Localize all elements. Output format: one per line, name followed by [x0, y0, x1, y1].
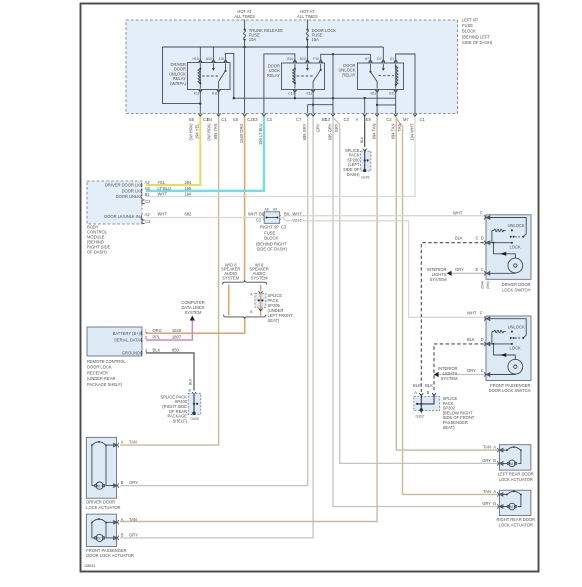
svg-text:FRONT PASSENGER: FRONT PASSENGER	[86, 548, 126, 553]
svg-text:PACKAGE SHELF): PACKAGE SHELF)	[87, 382, 123, 387]
receiver wire labels	[153, 328, 182, 353]
svg-text:TAN: TAN	[129, 440, 137, 445]
wire GRY driver switch to interior lights	[450, 272, 484, 274]
svg-text:SIDE OF DASH): SIDE OF DASH)	[257, 246, 288, 251]
brace bottom (alternates merge)	[224, 315, 266, 319]
left rear door lock actuator	[497, 445, 531, 470]
node: branch on ground rail	[332, 97, 334, 99]
body control module (dashed box)	[87, 181, 142, 224]
wire: left loop from rail to relay1 K11 node	[163, 47, 201, 104]
svg-text:GRY: GRY	[467, 368, 476, 373]
svg-text:294: 294	[185, 180, 193, 185]
driver door lock actuator label	[86, 500, 120, 510]
svg-text:682: 682	[185, 211, 193, 216]
svg-text:B: B	[493, 501, 496, 506]
svg-text:B: B	[121, 532, 124, 537]
fuse: door lock fuse 15A	[306, 28, 336, 42]
label interior lights system (passenger)	[438, 366, 458, 381]
svg-text:E8: E8	[322, 117, 328, 122]
svg-text:DOOR LK/UNLK IN: DOOR LK/UNLK IN	[104, 214, 140, 219]
node: B11 tee	[376, 104, 378, 106]
wire: relay1 J10 to ground rail	[226, 53, 234, 98]
right rear door lock actuator	[497, 490, 531, 515]
svg-text:DOOR LOCK SWITCH: DOOR LOCK SWITCH	[489, 388, 531, 393]
label W/ 8 speaker audio system	[249, 262, 268, 280]
arrow interior lights (passenger)	[434, 372, 439, 377]
svg-text:D: D	[481, 236, 484, 241]
wire: B11 tee to D11 drop	[377, 104, 396, 106]
wire: output tee horizontal to driver-B and rear-B drops	[308, 105, 333, 114]
wire GRY lock output to driver actuator B	[120, 117, 308, 486]
svg-text:A2: A2	[145, 212, 151, 217]
svg-text:B: B	[121, 480, 124, 485]
label BLK passenger switch	[467, 337, 475, 342]
relay U2 label	[267, 63, 280, 78]
wire: relay3 B11 drop to exit	[376, 91, 378, 113]
driver switch pin letters	[476, 236, 484, 272]
label GRY passenger switch	[467, 368, 476, 373]
svg-text:LEFT REAR DOOR: LEFT REAR DOOR	[498, 471, 534, 476]
svg-text:F10: F10	[313, 57, 319, 61]
svg-text:ORG: ORG	[153, 328, 162, 333]
svg-text:UNLOCK: UNLOCK	[508, 223, 525, 228]
splice pack SP400 label	[160, 394, 187, 423]
wire TAN to left rear actuator A	[396, 117, 498, 451]
connector exits at fuse block bottom edge	[199, 114, 417, 117]
svg-text:RELAY: RELAY	[267, 73, 280, 78]
splice pack SP205 (under left front seat)	[250, 291, 266, 316]
BCM label	[87, 225, 111, 255]
svg-text:BLK: BLK	[425, 383, 433, 388]
svg-text:C2: C2	[256, 218, 262, 223]
driver door lock switch label	[502, 282, 531, 292]
label WHT B8	[248, 211, 265, 222]
svg-text:B1: B1	[145, 192, 151, 197]
svg-text:194: 194	[185, 191, 193, 196]
svg-text:BLK: BLK	[360, 136, 364, 143]
labels BLK at SP302	[413, 383, 433, 395]
svg-text:BLK: BLK	[153, 348, 161, 353]
driver door lock switch	[484, 215, 531, 279]
svg-text:15A: 15A	[312, 37, 320, 42]
svg-text:C7: C7	[296, 117, 302, 122]
splice pack SP200 label	[343, 148, 360, 177]
svg-text:M7: M7	[403, 117, 409, 122]
front passenger door lock switch	[484, 316, 531, 381]
svg-text:C3: C3	[267, 117, 273, 122]
BCM pin brackets	[141, 183, 145, 223]
label GRY driver switch	[455, 267, 464, 272]
driver actuator pin labels	[121, 440, 138, 486]
svg-text:RIGHT REAR DOOR: RIGHT REAR DOOR	[497, 517, 536, 522]
label GRY wire 2	[315, 123, 320, 132]
svg-text:LOCK SWITCH: LOCK SWITCH	[502, 288, 530, 293]
svg-text:DOOR LOCK: DOOR LOCK	[87, 365, 112, 370]
svg-text:GRY: GRY	[482, 458, 491, 463]
label BLK driver switch	[455, 236, 463, 241]
svg-text:FRONT PASSENGER: FRONT PASSENGER	[490, 383, 530, 388]
svg-text:C: C	[481, 368, 484, 373]
svg-text:ALL TIMES: ALL TIMES	[297, 14, 318, 19]
svg-text:WHT: WHT	[467, 311, 477, 316]
svg-text:195 LT BLU: 195 LT BLU	[258, 123, 263, 145]
svg-text:BATTERY (B+): BATTERY (B+)	[113, 331, 141, 336]
svg-text:B4: B4	[207, 117, 213, 122]
receiver pin numbers	[145, 329, 148, 354]
splice pack SP302	[414, 393, 440, 413]
wire TAN split branch to right rear actuator A	[396, 118, 498, 495]
svg-text:(BEHIND LEFT: (BEHIND LEFT	[462, 34, 490, 39]
svg-text:FUSE: FUSE	[462, 23, 473, 28]
wire: relay2 E11 drop to output tee	[312, 91, 314, 105]
svg-text:A8: A8	[265, 208, 269, 212]
svg-text:(294): (294)	[481, 281, 485, 289]
svg-text:SHELF): SHELF)	[172, 418, 187, 423]
svg-text:10A: 10A	[249, 37, 257, 42]
passenger switch pin letters	[481, 337, 484, 373]
svg-text:LOCK: LOCK	[510, 244, 521, 249]
svg-text:A: A	[356, 117, 359, 122]
right rear actuator pin labels	[482, 489, 496, 506]
label ORG wire	[239, 124, 244, 144]
label LT BLU wire	[258, 123, 263, 145]
wire: relay1 K11 drop to exit	[199, 91, 201, 113]
svg-text:G200: G200	[361, 176, 369, 180]
node: fuse1 output on rail	[243, 46, 245, 48]
label TAN wire	[207, 123, 218, 141]
svg-text:M: M	[510, 505, 513, 509]
svg-text:K11: K11	[194, 91, 200, 95]
svg-text:D: D	[481, 337, 484, 342]
svg-text:UNLOCK: UNLOCK	[508, 324, 525, 329]
page border frame	[81, 4, 539, 572]
svg-text:C11: C11	[288, 91, 294, 95]
svg-text:B10: B10	[287, 57, 293, 61]
svg-text:BLK: BLK	[467, 337, 475, 342]
left I/P fuse block label	[462, 18, 493, 45]
svg-text:J10: J10	[218, 57, 224, 61]
wire: branch down from tie to ground rail and out of box	[332, 54, 334, 113]
front passenger door lock switch label	[489, 383, 531, 393]
relay U1: driver door unlock relay (W/RPA)	[188, 57, 231, 95]
svg-text:A: A	[121, 440, 124, 445]
svg-text:DRIVER DOOR: DRIVER DOOR	[502, 282, 531, 287]
wire: riser fuse2 to D10	[306, 60, 308, 62]
wire: rail to D7 riser	[382, 47, 384, 61]
svg-text:C1: C1	[420, 117, 426, 122]
node: C11 on rail	[294, 97, 296, 99]
node: J10 drop on rail	[233, 97, 235, 99]
BCM wire labels	[158, 180, 193, 217]
svg-text:C: C	[476, 236, 479, 241]
wire: fuse1 down-feed through box	[244, 40, 246, 114]
svg-text:195: 195	[185, 186, 193, 191]
svg-text:ALL TIMES: ALL TIMES	[234, 14, 255, 19]
svg-text:BLK: BLK	[413, 383, 421, 388]
svg-text:H11: H11	[212, 91, 218, 95]
svg-text:695 GRY: 695 GRY	[302, 123, 307, 140]
svg-text:E: E	[476, 267, 479, 272]
front passenger door lock actuator label	[86, 548, 134, 558]
svg-text:M: M	[98, 484, 101, 488]
wire: ground rail y=98.2	[234, 97, 396, 99]
label WHT wire	[409, 123, 414, 141]
svg-text:694 TAN: 694 TAN	[391, 123, 396, 139]
svg-text:LEFT I/P: LEFT I/P	[462, 18, 478, 23]
svg-text:E11: E11	[307, 91, 313, 95]
label WHT at passenger switch	[467, 311, 483, 316]
svg-text:C: C	[481, 267, 484, 272]
svg-text:GRY: GRY	[129, 532, 138, 537]
svg-text:A: A	[493, 445, 496, 450]
passenger actuator pin labels	[121, 517, 138, 538]
svg-text:H10: H10	[192, 57, 198, 61]
svg-text:E6: E6	[233, 117, 239, 122]
left rear door lock actuator label	[498, 471, 534, 481]
wire: D11 drop to exit	[395, 91, 397, 113]
right I/P fuse block label	[256, 224, 287, 251]
svg-text:B11: B11	[371, 91, 377, 95]
left I/P fuse block (dashed box)	[126, 20, 458, 114]
BCM pin rows	[104, 183, 140, 220]
wire LT BLU from relay2 B10 to BCM	[146, 117, 264, 191]
label interior lights system (driver)	[427, 267, 447, 282]
wire ORG from trunk release fuse down to brace	[244, 117, 246, 281]
svg-text:LOCK ACTUATOR: LOCK ACTUATOR	[86, 505, 120, 510]
svg-text:C2: C2	[145, 199, 151, 204]
wire WHT pass-through out, split to both switches	[280, 216, 486, 218]
svg-text:DOOR UNLK: DOOR UNLK	[116, 194, 141, 199]
label HOT AT ALL TIMES (right)	[297, 9, 318, 19]
wire: relay3 G7 riser to WHT drop x=415	[396, 54, 415, 114]
wire ORG left alternate (w/o 8 speaker)	[228, 285, 230, 316]
svg-text:DRIVER DOOR: DRIVER DOOR	[86, 500, 115, 505]
wire: B+ rail y=47	[163, 46, 384, 48]
wire: relay2 C11 drop	[294, 91, 296, 98]
wire WHT lower branch to passenger switch	[283, 218, 486, 318]
wire GRY to right rear actuator B with split	[333, 117, 498, 507]
node: BLK splice drop on rail	[364, 97, 366, 99]
svg-text:1807: 1807	[172, 335, 182, 340]
wire WHT from relay3 G7 to BCM door unlock	[146, 117, 415, 197]
svg-text:SEAT): SEAT)	[443, 425, 455, 430]
wire TAN from relay1 H11 to driver actuator A	[120, 117, 219, 446]
svg-text:LT BLU: LT BLU	[158, 186, 172, 191]
receiver label	[87, 359, 126, 387]
svg-text:1540: 1540	[172, 328, 182, 333]
svg-text:WHT: WHT	[158, 191, 168, 196]
svg-text:M: M	[98, 537, 101, 541]
label W/O 8 speaker audio system	[221, 262, 240, 280]
wire ORG right alternate into SP205	[260, 285, 262, 291]
svg-text:694 TAN: 694 TAN	[213, 123, 218, 139]
wire feed into door lock fuse	[306, 20, 308, 30]
svg-text:DASH): DASH)	[347, 172, 360, 177]
label WHT B9 out	[284, 211, 302, 222]
svg-text:G400: G400	[191, 417, 199, 421]
svg-text:C1: C1	[221, 117, 227, 122]
node: tie branch at x=333	[332, 53, 334, 55]
svg-text:RECEIVER: RECEIVER	[87, 370, 108, 375]
fuse: trunk release fuse 10A	[244, 28, 284, 42]
wire: passenger-B drop	[312, 105, 314, 114]
svg-text:SEAT): SEAT)	[268, 318, 280, 323]
node: E11 tee	[312, 104, 314, 106]
svg-text:PPL: PPL	[153, 335, 161, 340]
svg-text:B: B	[493, 458, 496, 463]
label YEL wire	[188, 123, 199, 141]
splice pack SP302 label	[443, 396, 475, 430]
svg-text:D7: D7	[377, 57, 381, 61]
label TAN pair	[391, 123, 402, 139]
svg-text:LOCK ACTUATOR: LOCK ACTUATOR	[499, 522, 533, 527]
svg-text:TAN: TAN	[483, 445, 491, 450]
svg-text:C2: C2	[386, 117, 392, 122]
svg-text:GRY: GRY	[455, 267, 464, 272]
svg-text:C2: C2	[281, 224, 287, 229]
label GRY wire	[302, 123, 307, 140]
svg-text:194 WHT: 194 WHT	[409, 123, 414, 141]
svg-text:LOCK ACTUATOR: LOCK ACTUATOR	[499, 477, 533, 482]
splice pack SP205 label	[268, 293, 294, 323]
wire GRY passenger switch to interior lights	[437, 374, 484, 376]
svg-text:E3: E3	[253, 117, 259, 122]
label TAN wire 694	[371, 123, 376, 139]
wire: relay1 H11 drop to exit	[218, 91, 220, 113]
svg-text:BLK: BLK	[455, 236, 463, 241]
splice pack SP400	[188, 392, 201, 415]
receiver pin rows	[113, 331, 141, 356]
wire: riser to relay1 H10	[199, 47, 201, 61]
svg-text:D10: D10	[300, 57, 306, 61]
wire TAN unlock output to passenger actuator A	[120, 117, 377, 522]
svg-text:BLOCK: BLOCK	[264, 235, 278, 240]
label BLK wire	[360, 136, 364, 143]
node: K11/YEL junction	[199, 102, 201, 104]
left rear actuator pin labels	[482, 445, 496, 463]
wire PPL serial data to arrow	[146, 321, 192, 341]
svg-text:A: A	[493, 489, 496, 494]
svg-text:A9: A9	[273, 208, 277, 212]
relay U3 label	[338, 63, 355, 78]
wire: fuse2 to relay2 pin D10	[306, 40, 308, 61]
svg-text:B5: B5	[189, 117, 195, 122]
svg-text:A10: A10	[206, 57, 212, 61]
svg-text:SIDE OF DASH): SIDE OF DASH)	[462, 40, 493, 45]
svg-text:GRY: GRY	[129, 480, 138, 485]
remote control door lock receiver box	[87, 327, 142, 356]
svg-text:SYSTEM: SYSTEM	[251, 275, 268, 280]
label HOT AT ALL TIMES (left)	[234, 9, 255, 19]
front passenger door lock actuator	[86, 514, 119, 546]
svg-text:A: A	[121, 517, 124, 522]
relay U1 label	[169, 62, 187, 86]
svg-text:GRY: GRY	[315, 123, 320, 132]
wire ORG merged to receiver battery pin	[146, 319, 245, 333]
svg-text:DRIVER DOOR LK: DRIVER DOOR LK	[105, 183, 140, 188]
svg-text:WHT: WHT	[453, 211, 463, 216]
svg-text:GRY: GRY	[482, 501, 491, 506]
svg-text:G302: G302	[416, 415, 424, 419]
driver door lock actuator	[86, 437, 119, 498]
arrow to computer data lines	[190, 316, 195, 321]
svg-text:(UNDER REAR: (UNDER REAR	[87, 376, 115, 381]
svg-text:158923: 158923	[84, 564, 95, 568]
svg-text:TAN: TAN	[397, 123, 402, 131]
svg-text:(W/ RPA): (W/ RPA)	[188, 123, 193, 141]
wire BLK passenger switch to SP302	[434, 344, 484, 392]
svg-text:M: M	[510, 462, 513, 466]
svg-text:H7: H7	[365, 57, 369, 61]
label COMPUTER DATA LINES SYSTEM	[181, 300, 205, 315]
svg-text:E9: E9	[366, 117, 372, 122]
svg-text:(595): (595)	[486, 281, 490, 289]
svg-text:LOCK: LOCK	[510, 346, 521, 351]
wire BLK receiver ground to SP400	[146, 353, 194, 391]
wire YEL from relay1 K11 to BCM A2	[146, 117, 200, 186]
relay U3: door unlock relay	[358, 57, 404, 95]
svg-text:TAN: TAN	[129, 517, 137, 522]
label GRY pair	[327, 123, 339, 140]
svg-text:C3: C3	[344, 117, 350, 122]
svg-text:SYSTEM: SYSTEM	[185, 310, 202, 315]
brace top (alternates split)	[223, 280, 267, 284]
wire feed into trunk release fuse	[244, 20, 246, 30]
right I/P fuse block pass-through connector	[263, 208, 280, 224]
wire WHT BCM door lk/unlk in to right I/P pass-through	[146, 217, 265, 219]
label BLK 850 rotated at SP400	[188, 378, 193, 392]
svg-text:C3: C3	[145, 219, 151, 224]
svg-text:A2: A2	[145, 180, 151, 185]
svg-text:SYSTEM: SYSTEM	[222, 275, 239, 280]
wire: relay2 F10 to relay3 H7 tie	[321, 54, 371, 60]
svg-text:B: B	[427, 390, 430, 395]
BCM pin numbers	[145, 180, 152, 224]
svg-text:BLK: BLK	[189, 378, 193, 385]
splice pack SP200 (left side of dash)	[361, 149, 371, 173]
arrow interior lights (driver)	[447, 271, 452, 276]
driver switch rotated circuit labels	[481, 281, 491, 289]
svg-text:RELAY: RELAY	[342, 72, 355, 77]
svg-text:REMOTE CONTROL: REMOTE CONTROL	[87, 359, 126, 364]
svg-text:A8: A8	[145, 186, 151, 191]
svg-text:(W/RPA): (W/RPA)	[170, 81, 186, 86]
wire GRY lock output to passenger actuator B	[120, 117, 313, 538]
wire GRY split branch to left rear actuator B	[333, 118, 498, 464]
svg-text:GRY: GRY	[334, 123, 339, 132]
wire BLK driver switch to SP302	[421, 243, 484, 392]
svg-text:RIGHT I/P: RIGHT I/P	[260, 224, 279, 229]
svg-text:WHT: WHT	[158, 211, 168, 216]
svg-text:GROUND: GROUND	[122, 351, 140, 356]
svg-text:1540 ORG: 1540 ORG	[239, 124, 244, 144]
connector cavity labels below box edge	[189, 117, 426, 122]
svg-text:850: 850	[172, 348, 180, 353]
wire: riser to relay1 A10	[212, 47, 214, 61]
svg-text:A: A	[414, 390, 417, 395]
svg-text:G7: G7	[390, 57, 395, 61]
svg-text:D11: D11	[389, 91, 395, 95]
svg-text:WHT: WHT	[248, 211, 258, 216]
svg-text:294 YEL: 294 YEL	[195, 123, 200, 139]
svg-text:OF DASH): OF DASH)	[87, 250, 107, 255]
svg-text:(W/ RPA): (W/ RPA)	[207, 123, 212, 141]
wire: LT BLU riser inside box to relay2 B10	[264, 54, 295, 114]
svg-text:DOOR LOCK ACTUATOR: DOOR LOCK ACTUATOR	[86, 553, 134, 558]
svg-text:BLOCK: BLOCK	[462, 29, 476, 34]
svg-text:TAN: TAN	[483, 489, 491, 494]
receiver pin brackets	[141, 331, 142, 355]
